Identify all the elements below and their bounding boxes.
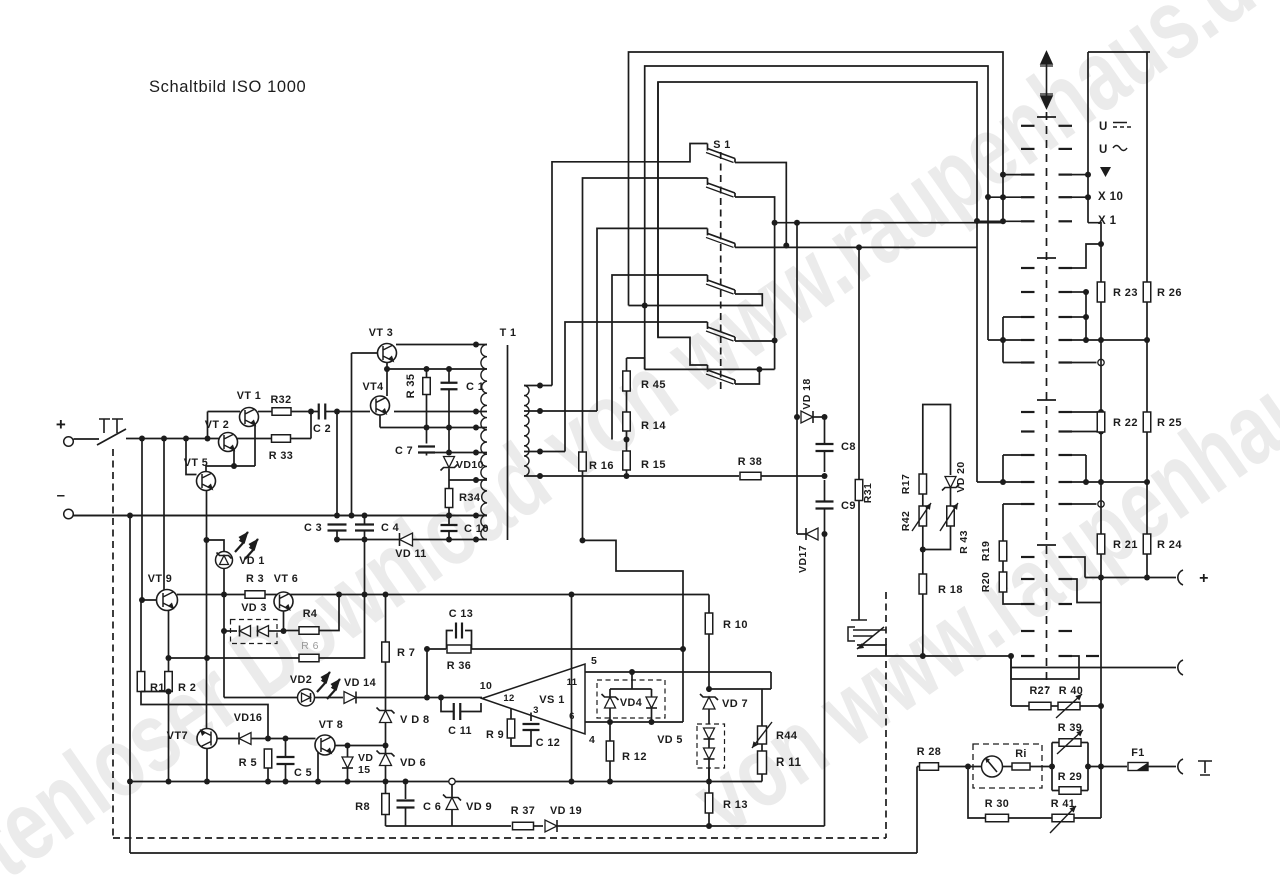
T1 right winding	[524, 386, 529, 477]
wire to VD18	[775, 222, 1003, 224]
wafer contact	[1021, 503, 1035, 505]
resistor R13	[708, 782, 710, 794]
svg-text:R34: R34	[459, 492, 481, 504]
svg-text:R 25: R 25	[1157, 417, 1182, 429]
svg-text:4: 4	[589, 734, 595, 746]
wire S1 c4 output	[629, 294, 763, 306]
terminal +	[1178, 570, 1183, 585]
wire	[357, 697, 483, 699]
thyristor symbol	[848, 620, 886, 649]
wire S1 c5 output	[735, 340, 775, 342]
resistor R20	[999, 572, 1007, 592]
resistor R42 variable	[919, 506, 927, 526]
wire VT9 emitter	[168, 611, 170, 672]
S1 contact 3	[707, 228, 709, 235]
wafer contact	[1021, 556, 1035, 558]
resistor R44 variable	[770, 672, 772, 689]
svg-text:+: +	[1199, 570, 1209, 587]
wire riser c1	[552, 144, 708, 386]
wire riser c2	[583, 178, 708, 453]
wire	[319, 540, 365, 659]
resistor R40 variable	[1051, 705, 1058, 707]
svg-text:C 10: C 10	[464, 523, 489, 535]
svg-text:5: 5	[591, 655, 597, 667]
wire W1 bottom tap	[394, 411, 487, 413]
wire S1 c1 output	[735, 163, 786, 246]
svg-text:VD 7: VD 7	[722, 698, 748, 710]
wafer contact	[1021, 655, 1035, 657]
wire riser c4	[612, 275, 708, 440]
svg-text:VD 18: VD 18	[801, 378, 813, 409]
svg-text:R 15: R 15	[641, 459, 666, 471]
resistor R12	[609, 722, 611, 741]
selector arrow	[1040, 52, 1053, 108]
diode VD6 zener	[385, 746, 387, 754]
svg-text:R 37: R 37	[511, 805, 535, 817]
resistor R29	[1052, 790, 1059, 792]
svg-text:VD 5: VD 5	[657, 734, 683, 746]
wafer contact	[1021, 454, 1035, 456]
svg-text:C 6: C 6	[423, 801, 441, 813]
svg-text:–: –	[57, 487, 66, 504]
wafer contact	[1021, 316, 1035, 318]
wire VD1 branch	[207, 540, 225, 552]
wire	[290, 438, 311, 440]
svg-text:R 28: R 28	[917, 746, 941, 758]
diode VD5 pair	[697, 724, 725, 768]
capacitor C8	[824, 417, 826, 443]
wire S1 c6 output	[735, 369, 759, 384]
R39/R29 parallel box	[1051, 743, 1053, 791]
svg-text:VD 19: VD 19	[550, 805, 582, 817]
wire	[922, 526, 924, 574]
arrow marker	[1100, 167, 1111, 177]
svg-text:VD 14: VD 14	[344, 677, 376, 689]
resistor R1	[140, 600, 142, 672]
wire	[708, 768, 710, 782]
capacitor C11	[441, 698, 454, 712]
wire lower line	[364, 531, 366, 540]
resistor R38	[740, 472, 761, 480]
capacitor C1	[448, 369, 450, 382]
svg-text:R 9: R 9	[486, 729, 504, 741]
wire left branch	[129, 516, 131, 854]
dashed border right	[885, 592, 887, 838]
capacitor C3	[328, 525, 347, 531]
wafer T-bar	[1037, 257, 1056, 259]
terminal + input	[64, 437, 74, 447]
wire	[291, 411, 318, 413]
resistor R14	[623, 412, 631, 431]
wire wafer3 right	[1072, 411, 1101, 413]
svg-text:R 23: R 23	[1113, 287, 1138, 299]
svg-text:R 33: R 33	[269, 450, 293, 462]
transistor VT5	[197, 472, 216, 491]
wire top loop 2	[645, 66, 988, 369]
svg-text:R 45: R 45	[641, 379, 666, 391]
svg-text:R42: R42	[900, 511, 912, 531]
diode VD19	[545, 820, 557, 832]
wire VT4 base	[337, 411, 370, 413]
wire	[950, 488, 952, 506]
wire VT8 emitter	[317, 753, 319, 782]
wafer contact	[1021, 603, 1035, 605]
svg-text:R 2: R 2	[178, 682, 196, 694]
wafer contact	[1021, 578, 1035, 580]
wire	[858, 501, 860, 621]
wire	[448, 469, 450, 489]
svg-text:R 26: R 26	[1157, 287, 1182, 299]
wire riser c5	[565, 322, 708, 452]
capacitor C6	[405, 782, 407, 800]
svg-text:F1: F1	[1131, 747, 1144, 759]
diode VD3 pair	[224, 630, 237, 632]
svg-text:R20: R20	[980, 572, 992, 592]
wire	[141, 692, 268, 739]
resistor R41 variable	[1009, 817, 1053, 819]
wire wiper rect	[1011, 656, 1079, 679]
wire	[286, 738, 316, 740]
transistor VT6	[274, 592, 293, 611]
capacitor C5	[285, 739, 287, 758]
wire VT9 collector	[163, 439, 165, 591]
svg-text:C 11: C 11	[448, 725, 472, 737]
wire T1 taps right	[524, 385, 552, 387]
svg-text:VD17: VD17	[797, 545, 809, 573]
wire	[448, 428, 450, 456]
resistor R34	[445, 489, 453, 508]
svg-text:R44: R44	[776, 730, 798, 742]
wafer contact	[1021, 481, 1035, 483]
svg-text:C 12: C 12	[536, 737, 560, 749]
svg-text:VD 11: VD 11	[395, 548, 426, 560]
wire top loop 1	[629, 52, 1004, 306]
resistor R15	[623, 451, 631, 470]
wafer contact	[1021, 361, 1035, 363]
wire	[922, 494, 924, 506]
wire	[627, 358, 645, 369]
wire op-amp out top	[585, 671, 771, 673]
capacitor C2	[319, 404, 326, 420]
wire - rail to transformer	[486, 515, 488, 517]
svg-text:C8: C8	[841, 441, 856, 453]
transistor VT2	[219, 433, 238, 452]
resistor R19	[999, 541, 1007, 561]
svg-text:R 13: R 13	[723, 799, 748, 811]
wire	[923, 526, 951, 550]
wire VT5 emitter	[206, 491, 208, 729]
svg-text:R 43: R 43	[958, 530, 970, 554]
wire top loop 3	[658, 82, 977, 482]
resistor R43 variable	[947, 506, 955, 526]
wafer contact	[1021, 630, 1035, 632]
capacitor C13	[456, 623, 462, 639]
wire op-amp out bottom	[585, 721, 683, 723]
svg-text:R 6: R 6	[301, 640, 319, 652]
svg-text:R 11: R 11	[776, 757, 801, 769]
svg-text:C 3: C 3	[304, 522, 322, 534]
svg-text:R 22: R 22	[1113, 417, 1138, 429]
wire	[922, 594, 924, 656]
resistor R36 + C13	[427, 648, 446, 650]
svg-text:Ri: Ri	[1015, 748, 1027, 760]
wire VT5 collector	[206, 466, 234, 472]
resistor R10	[708, 595, 710, 614]
wire riser c6 via rect3	[658, 82, 708, 365]
resistor R26 column	[1146, 52, 1148, 282]
wire C9 column down	[824, 534, 826, 826]
diode VD7	[703, 697, 715, 709]
svg-text:R27: R27	[1029, 685, 1050, 697]
resistor R22	[1097, 412, 1105, 432]
svg-text:C 4: C 4	[381, 522, 399, 534]
wire row362 stub	[1072, 362, 1097, 364]
wire R38 line	[524, 475, 739, 477]
resistor R9	[510, 709, 512, 720]
fuse F1	[1128, 763, 1148, 771]
svg-text:R19: R19	[980, 541, 992, 561]
svg-text:VT 3: VT 3	[369, 327, 393, 339]
wire wafer3 left bracket	[1002, 455, 1004, 482]
wire	[1100, 603, 1102, 819]
transistor VT1	[240, 408, 259, 427]
wire	[74, 438, 100, 440]
diode VD2 opto	[224, 697, 298, 699]
svg-text:R 21: R 21	[1113, 539, 1138, 551]
transistor VT9	[157, 590, 178, 611]
resistor R45	[626, 358, 628, 371]
wire wafer4 right row1	[1072, 557, 1085, 578]
wire VT8 collector	[335, 745, 386, 747]
wafer spine	[1046, 112, 1048, 688]
wire R27/R40	[1010, 656, 1012, 706]
svg-text:VD2: VD2	[290, 674, 312, 686]
wire bottom rail	[130, 781, 762, 783]
diode VD1 opto	[216, 552, 233, 569]
wire wafer2 left bracket	[1002, 317, 1004, 363]
wire	[141, 691, 169, 693]
wafer contact	[1021, 339, 1035, 341]
S1 contact 2	[707, 178, 709, 185]
meter	[982, 756, 1003, 777]
wire	[268, 738, 286, 740]
svg-text:3: 3	[533, 705, 539, 716]
diode VD9 zener	[451, 785, 453, 798]
svg-text:R 18: R 18	[938, 584, 963, 596]
svg-text:R32: R32	[270, 394, 291, 406]
resistor R33	[272, 435, 291, 443]
resistor R7	[385, 595, 387, 643]
wafer contact	[1021, 196, 1035, 198]
wire	[448, 508, 450, 525]
pushbutton S	[97, 429, 126, 445]
svg-text:VD 6: VD 6	[400, 757, 426, 769]
svg-text:C 2: C 2	[313, 423, 331, 435]
svg-text:VT 9: VT 9	[148, 573, 172, 585]
dashed border left	[112, 449, 114, 838]
resistor R16	[579, 452, 587, 471]
svg-text:VD16: VD16	[234, 712, 263, 724]
svg-text:C9: C9	[841, 500, 856, 512]
resistor R32	[272, 408, 291, 416]
wafer contact	[1021, 148, 1035, 150]
wire R28 line	[917, 766, 920, 768]
svg-text:R8: R8	[355, 801, 370, 813]
wafer4 wiper dashes	[1086, 655, 1099, 657]
svg-text:U: U	[1099, 144, 1108, 156]
transistor VT7	[197, 729, 217, 749]
svg-text:R 12: R 12	[622, 751, 647, 763]
wire	[351, 353, 353, 516]
wire wafer2 right bracket	[1085, 292, 1087, 340]
wire S1 c3 output to R31	[735, 246, 977, 248]
terminal gnd	[1178, 759, 1183, 774]
svg-text:R 36: R 36	[447, 660, 471, 672]
svg-text:VT 2: VT 2	[205, 419, 229, 431]
wire	[387, 368, 487, 370]
resistor R21	[1097, 534, 1105, 554]
svg-text:R17: R17	[900, 474, 912, 494]
diode VD4 pair	[597, 680, 665, 718]
svg-text:VS 1: VS 1	[539, 694, 564, 706]
terminal mid	[1178, 660, 1183, 675]
svg-text:Schaltbild ISO 1000: Schaltbild ISO 1000	[149, 78, 306, 96]
svg-text:VD: VD	[358, 752, 373, 764]
capacitor C10	[441, 525, 458, 531]
resistor R24	[1143, 534, 1151, 554]
svg-text:R 29: R 29	[1058, 771, 1082, 783]
svg-text:VT 8: VT 8	[319, 719, 343, 731]
wire	[258, 411, 272, 413]
wire VT3 collector	[396, 344, 487, 346]
diode VD11	[400, 533, 413, 546]
wire wafer2 row1 up	[1072, 244, 1101, 268]
svg-text:VD 1: VD 1	[239, 555, 265, 567]
svg-text:15: 15	[358, 764, 370, 776]
wafer contact	[1021, 174, 1035, 176]
diode VD16	[217, 738, 238, 740]
wire wafer1 right	[1072, 174, 1088, 176]
wire	[237, 438, 272, 440]
diode VD17	[822, 531, 828, 537]
svg-text:12: 12	[503, 693, 514, 704]
wire	[857, 645, 886, 656]
transistor VT3	[378, 344, 397, 363]
svg-text:T 1: T 1	[500, 327, 517, 339]
resistor R31	[858, 247, 860, 479]
svg-text:VD 20: VD 20	[955, 461, 967, 492]
resistor R27	[1029, 702, 1051, 710]
wafer contact	[1021, 267, 1035, 269]
svg-text:R 30: R 30	[985, 798, 1009, 810]
wire VT1/VT2 emitters	[254, 424, 256, 466]
capacitor C12	[530, 713, 532, 722]
wire VT6 emitter	[283, 611, 285, 631]
wire long vertical	[571, 595, 573, 782]
diode VD20	[945, 477, 956, 488]
svg-text:VT 6: VT 6	[274, 573, 298, 585]
resistor R6	[169, 657, 300, 659]
wire	[582, 471, 584, 540]
wire riser c3	[597, 228, 708, 411]
svg-text:R4: R4	[303, 608, 318, 620]
wafer contact	[1021, 125, 1035, 127]
svg-text:C 13: C 13	[449, 608, 473, 620]
wire	[223, 569, 225, 698]
wire R19/R20 column	[1003, 503, 1021, 505]
wafer contact	[1021, 430, 1035, 432]
resistor R23 column	[1097, 282, 1105, 302]
wire output rail	[857, 655, 1011, 657]
svg-text:R 24: R 24	[1157, 539, 1182, 551]
wire W2 bottom tap	[427, 452, 488, 454]
resistor R17	[919, 474, 927, 494]
wire	[326, 411, 337, 413]
svg-text:R 38: R 38	[738, 456, 762, 468]
wire VT3 base	[352, 352, 378, 354]
svg-text:C 5: C 5	[294, 767, 312, 779]
svg-text:R 10: R 10	[723, 619, 748, 631]
svg-text:VT 1: VT 1	[237, 390, 261, 402]
wafer contact	[1021, 220, 1035, 222]
resistor R37	[513, 822, 534, 830]
wire + rail	[126, 438, 219, 440]
wire	[1088, 766, 1127, 768]
resistor R35	[426, 369, 428, 378]
svg-text:+: +	[56, 415, 66, 434]
svg-text:S 1: S 1	[713, 139, 730, 151]
svg-text:C 7: C 7	[395, 445, 413, 457]
wire	[626, 431, 628, 451]
capacitor C9	[824, 480, 826, 501]
S1 contact 4	[707, 275, 709, 282]
svg-text:X 10: X 10	[1098, 191, 1123, 203]
svg-text:VT 5: VT 5	[184, 457, 208, 469]
svg-text:R 5: R 5	[239, 757, 257, 769]
transistor VT4	[371, 396, 390, 415]
T1 core	[507, 345, 509, 540]
S1 contact 6	[707, 365, 709, 372]
S1 contact 1	[707, 144, 709, 151]
svg-text:VT7: VT7	[167, 730, 188, 742]
wire row340	[1072, 339, 1147, 341]
svg-text:VD4: VD4	[620, 697, 642, 709]
wire S1 c2 output	[735, 197, 775, 369]
wafer contact	[1021, 411, 1035, 413]
wire	[472, 648, 684, 650]
transistor VT8	[315, 735, 335, 755]
wire feedback node	[426, 649, 428, 698]
wire - rail	[74, 515, 488, 517]
svg-text:R 3: R 3	[246, 573, 264, 585]
wafer contact	[1021, 291, 1035, 293]
T1 left winding	[481, 345, 487, 540]
resistor R3	[245, 591, 265, 599]
wire top link	[923, 405, 951, 476]
resistor R2	[165, 672, 173, 692]
diode VD15	[347, 746, 349, 758]
svg-text:R 35: R 35	[405, 374, 417, 399]
wire R30/R41 line	[968, 767, 985, 819]
svg-text:VD10: VD10	[456, 459, 484, 471]
terminal -	[64, 509, 74, 519]
wire to op-amp block	[583, 540, 684, 722]
wire + terminal	[1085, 577, 1176, 579]
wire common	[645, 368, 775, 370]
wire wafer4 row2	[1072, 579, 1101, 603]
svg-text:U: U	[1099, 121, 1108, 133]
diode VD10 zener	[444, 457, 455, 468]
